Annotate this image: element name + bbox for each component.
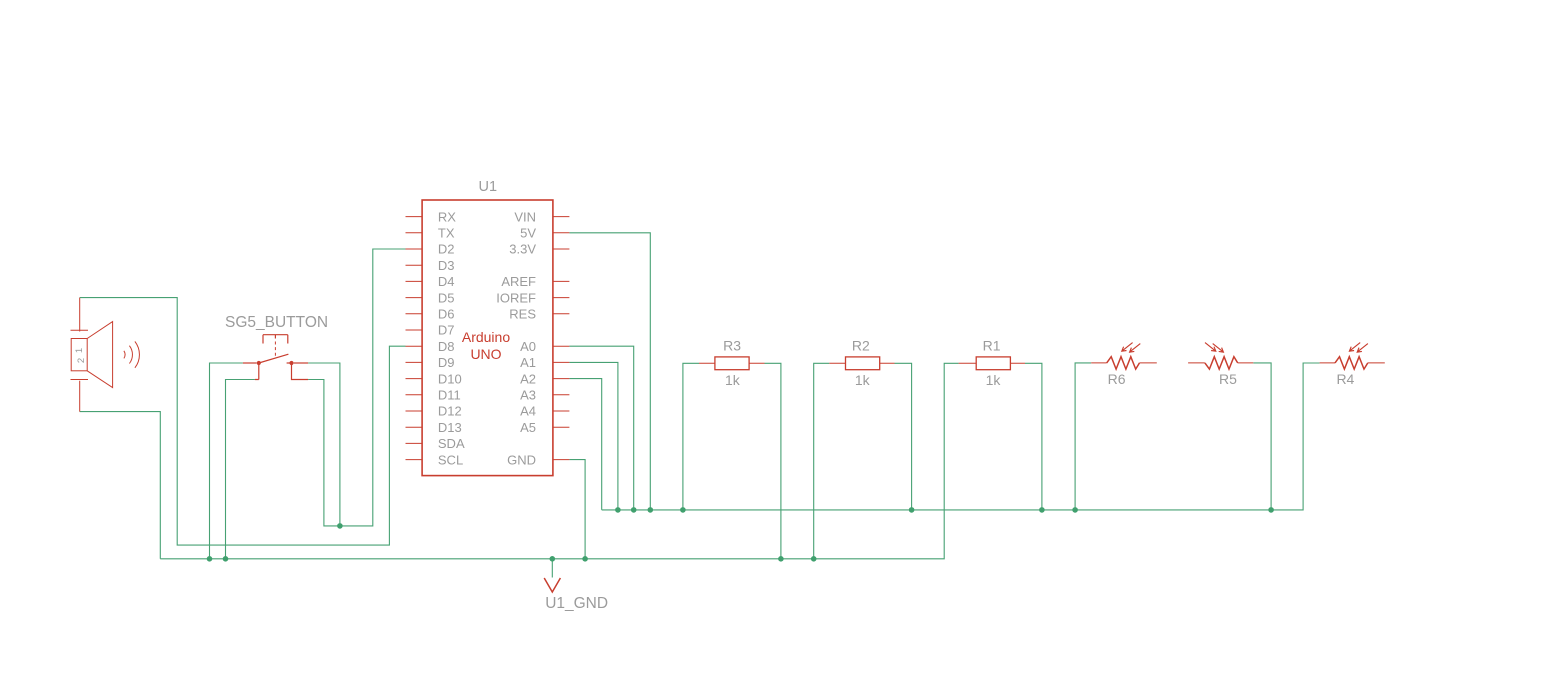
junction R3 left / upper bus	[680, 507, 686, 513]
junction 5V / upper bus	[648, 507, 654, 513]
photoresistor R4	[1320, 343, 1385, 370]
resistor R3	[699, 357, 765, 370]
junction U1_GND stub / GND bus	[550, 556, 556, 562]
junction button left contact / GND bus	[207, 556, 213, 562]
wire button lower-left pin to GND bus	[226, 380, 255, 559]
wire D2 to button lower-right pin	[308, 249, 405, 526]
button SG5_BUTTON	[243, 335, 308, 380]
junction R2 left / GND bus	[811, 556, 817, 562]
junction button lower-left pin / GND bus	[223, 556, 229, 562]
svg-text:UNO: UNO	[470, 346, 501, 362]
svg-text:SDA: SDA	[438, 436, 465, 451]
wire 5V to upper bus	[569, 233, 650, 510]
svg-text:SCL: SCL	[438, 452, 463, 467]
wire R2 left to lower bus	[814, 363, 830, 559]
svg-text:D5: D5	[438, 290, 455, 305]
U1 right pin labels	[496, 209, 536, 467]
wire button right contact branch	[308, 363, 340, 526]
svg-text:U1: U1	[479, 179, 498, 195]
photoresistor R6	[1091, 343, 1157, 370]
wire R3 right to lower bus	[765, 363, 781, 559]
svg-text:SG5_BUTTON: SG5_BUTTON	[225, 314, 328, 331]
wire A2 to upper bus left end	[569, 379, 601, 510]
junction R6 left / upper bus	[1072, 507, 1078, 513]
ground U1_GND	[544, 578, 560, 592]
wire R2 right to upper bus	[895, 363, 912, 510]
button contact dot right	[289, 361, 293, 365]
photoresistor R5	[1188, 343, 1253, 370]
svg-text:R1: R1	[983, 338, 1001, 354]
svg-text:VIN: VIN	[514, 209, 536, 224]
wire R5 right to upper bus	[1253, 363, 1271, 510]
U1 right pin stubs	[553, 217, 570, 460]
resistor R2	[829, 357, 894, 370]
svg-text:R5: R5	[1219, 371, 1237, 387]
svg-text:R3: R3	[723, 338, 741, 354]
wire R3 left to upper bus	[683, 363, 699, 510]
junction GND pin wire / GND bus	[582, 556, 588, 562]
wire A1 to upper bus	[569, 362, 618, 510]
svg-text:1k: 1k	[986, 372, 1002, 388]
svg-text:R6: R6	[1108, 371, 1126, 387]
svg-text:A0: A0	[520, 339, 536, 354]
resistor R1	[959, 357, 1025, 370]
svg-text:RES: RES	[509, 307, 536, 322]
svg-text:D8: D8	[438, 339, 455, 354]
svg-text:A5: A5	[520, 420, 536, 435]
svg-text:A2: A2	[520, 371, 536, 386]
junction R1 right / upper bus	[1039, 507, 1045, 513]
wire R6 left to upper bus	[1075, 363, 1091, 510]
svg-text:IOREF: IOREF	[496, 290, 536, 305]
svg-text:R2: R2	[852, 338, 870, 354]
svg-text:1k: 1k	[725, 372, 741, 388]
svg-text:D13: D13	[438, 420, 462, 435]
svg-text:D3: D3	[438, 258, 455, 273]
svg-text:D6: D6	[438, 307, 455, 322]
wire U1_GND stub	[551, 559, 553, 578]
U1 left pin labels	[438, 209, 465, 467]
svg-text:5V: 5V	[520, 226, 536, 241]
svg-text:AREF: AREF	[501, 274, 536, 289]
junction A1 / upper bus	[615, 507, 621, 513]
svg-text:D12: D12	[438, 404, 462, 419]
svg-text:2: 2	[76, 358, 87, 363]
wire GND pin to lower bus	[569, 460, 585, 559]
wire button left contact to GND bus	[210, 363, 243, 559]
svg-text:GND: GND	[507, 452, 536, 467]
svg-text:U1_GND: U1_GND	[545, 595, 608, 612]
svg-text:TX: TX	[438, 226, 455, 241]
wire R1 right to upper bus	[1025, 363, 1042, 510]
wire upper bus to R4 left	[602, 363, 1320, 510]
button contact dot left	[257, 361, 261, 365]
svg-text:D10: D10	[438, 371, 462, 386]
svg-text:1: 1	[74, 348, 85, 353]
svg-text:3.3V: 3.3V	[509, 242, 536, 257]
wire speaker top to D8	[80, 298, 406, 545]
wire speaker bottom to GND bus	[80, 412, 161, 559]
U1 left pin stubs	[406, 217, 423, 460]
svg-text:RX: RX	[438, 209, 456, 224]
svg-text:D7: D7	[438, 323, 455, 338]
svg-text:D11: D11	[438, 388, 461, 403]
svg-text:D2: D2	[438, 242, 455, 257]
svg-text:A1: A1	[520, 355, 536, 370]
svg-text:A3: A3	[520, 388, 536, 403]
speaker LS1	[71, 298, 140, 412]
junction A0 / upper bus	[631, 507, 637, 513]
wire GND bus (lower) to R1 left	[160, 363, 958, 559]
svg-text:A4: A4	[520, 404, 536, 419]
op-amp U1 Arduino UNO box	[422, 200, 553, 476]
junction R3 right / GND bus	[778, 556, 784, 562]
svg-text:D9: D9	[438, 355, 455, 370]
junction R2 right / upper bus	[909, 507, 915, 513]
junction R5 right / upper bus	[1268, 507, 1274, 513]
svg-text:R4: R4	[1336, 371, 1354, 387]
svg-text:1k: 1k	[855, 372, 871, 388]
wire A0 to upper bus	[569, 346, 633, 510]
junction button right contact / D2 wire	[337, 523, 343, 529]
svg-text:Arduino: Arduino	[462, 329, 510, 345]
svg-text:D4: D4	[438, 274, 455, 289]
